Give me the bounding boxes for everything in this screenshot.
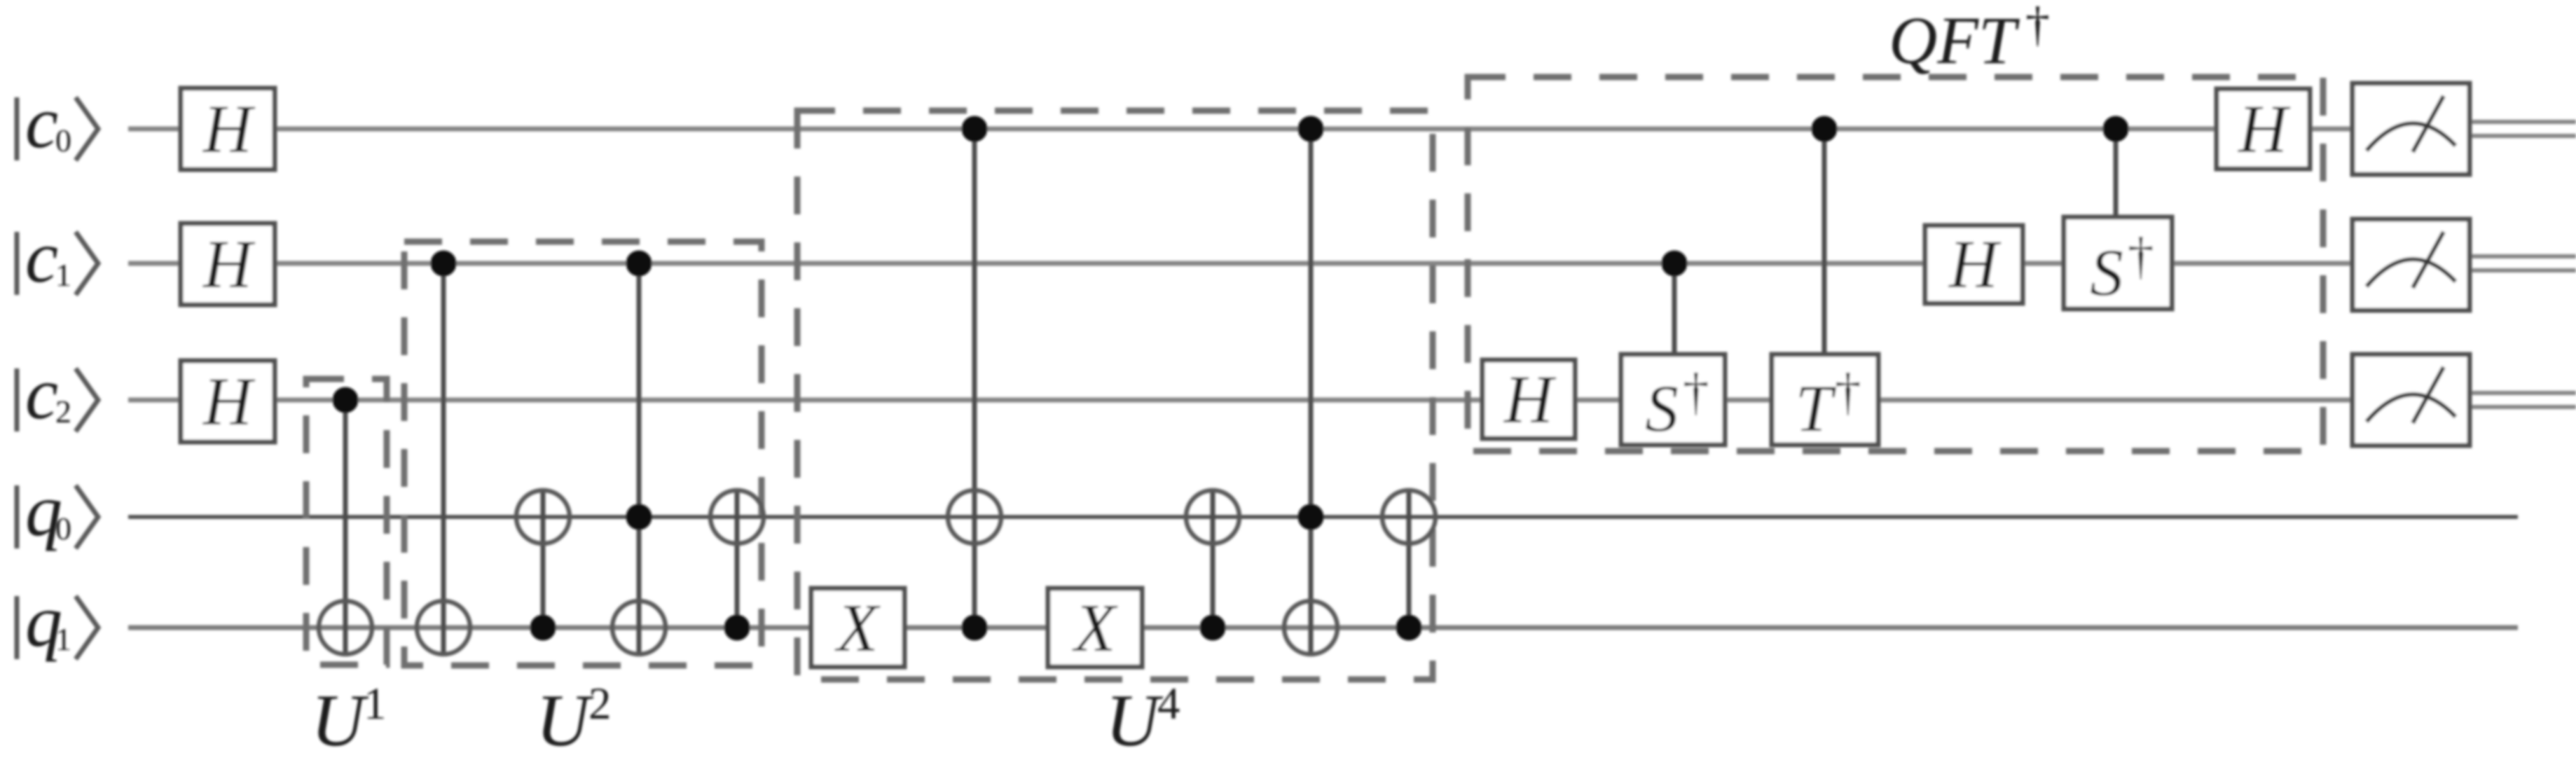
- S-dagger gate on c2: [1621, 354, 1725, 445]
- svg-text:2: 2: [588, 679, 612, 729]
- label U^1: [311, 679, 387, 760]
- svg-text:U: U: [536, 679, 594, 756]
- wire control line c0->Tdg: [1822, 129, 1827, 357]
- svg-text:X: X: [1071, 590, 1118, 665]
- svg-text:U: U: [311, 679, 369, 756]
- wire control line U4a c0->q1: [972, 129, 977, 628]
- ket label |c0>: [17, 81, 98, 163]
- wire q0 qubit line: [128, 515, 2518, 519]
- control dot on c1 (U2 col1): [431, 251, 457, 277]
- control dot on c1 (U2 col3): [626, 251, 652, 277]
- svg-text:†: †: [1683, 363, 1709, 421]
- svg-text:U: U: [1106, 679, 1164, 756]
- dashed box QFT-dagger: [1468, 77, 2323, 451]
- control dot on c2 (U1): [333, 387, 359, 413]
- CNOT target on q0 (U2 col2): [516, 490, 570, 544]
- ket label |q0>: [17, 469, 98, 551]
- CNOT target on q0 (U4 col2): [1186, 490, 1239, 544]
- control dot on q0 (U4 col3): [1298, 504, 1324, 530]
- wire c1 qubit line: [128, 261, 2353, 266]
- svg-text:H: H: [1503, 362, 1557, 437]
- c0 classical double line: [2470, 122, 2576, 136]
- svg-text:S: S: [1645, 371, 1679, 445]
- CNOT target on q0 (U2 col4): [710, 490, 764, 544]
- control dot on c0 (ctrl-Tdg c2): [1812, 116, 1838, 142]
- c2 classical double line: [2470, 393, 2576, 407]
- svg-text:S: S: [2090, 235, 2123, 310]
- svg-text:c: c: [25, 216, 58, 298]
- control dot on c1 (ctrl-Sdg c2): [1662, 251, 1688, 277]
- T-dagger gate on c2: [1772, 354, 1878, 445]
- X gate on q1 (first): [811, 588, 904, 667]
- label U^2: [536, 679, 612, 760]
- wire control line c1->Sdg: [1672, 263, 1677, 357]
- measurement meter on c0: [2353, 83, 2470, 174]
- label U^4: [1106, 679, 1180, 760]
- control dot on q1 (U2 col4): [724, 615, 750, 641]
- CNOT target on q1 (U4 col3): [1284, 601, 1337, 654]
- svg-text:†: †: [1835, 363, 1861, 421]
- svg-text:H: H: [202, 92, 256, 167]
- dashed box U^4: [797, 111, 1433, 679]
- CNOT target on q1 (U1): [319, 601, 372, 654]
- svg-text:T: T: [1796, 371, 1837, 445]
- control dot on c0 (U4 col1): [962, 116, 988, 142]
- wire control line c0->Sdg2: [2114, 129, 2119, 219]
- svg-text:0: 0: [55, 123, 71, 158]
- control dot on q1 (U2 col2): [530, 615, 556, 641]
- CNOT target on q1 (U2 col3): [612, 601, 666, 654]
- wire control line U4b q0->q1: [1211, 490, 1215, 628]
- dashed box U^1: [306, 379, 387, 665]
- control dot on c0 (ctrl-Sdg c1): [2103, 116, 2129, 142]
- svg-text:X: X: [834, 590, 881, 665]
- control dot on q1 (U4 col4): [1396, 615, 1422, 641]
- svg-text:1: 1: [55, 621, 71, 657]
- svg-text:H: H: [2237, 92, 2291, 167]
- wire c2 qubit line: [128, 398, 2353, 403]
- S-dagger gate on c1: [2064, 217, 2172, 310]
- wire c0 qubit line: [128, 127, 2353, 132]
- svg-text:4: 4: [1157, 679, 1180, 729]
- svg-text:†: †: [2025, 0, 2050, 52]
- svg-text:c: c: [25, 81, 58, 163]
- H gate on c2: [181, 361, 275, 442]
- CNOT target on q1 (U2 col1): [417, 601, 470, 654]
- wire control line U4d q0->q1: [1407, 490, 1412, 628]
- svg-text:1: 1: [55, 257, 71, 293]
- control dot on q1 (U4 col2): [1200, 615, 1226, 641]
- H gate on c1: [181, 223, 275, 305]
- CNOT target on q0 (U4 col1): [948, 490, 1001, 544]
- wire control line U2d q0->q1: [735, 490, 740, 628]
- svg-text:1: 1: [364, 679, 387, 729]
- wire control line U1 c2->q1: [343, 400, 348, 654]
- svg-text:†: †: [2128, 227, 2154, 285]
- H gate on c0: [181, 88, 275, 170]
- H gate on c2 (QFT): [1482, 360, 1575, 438]
- svg-text:H: H: [202, 364, 256, 439]
- wire control line U2b q0->q1: [541, 490, 546, 628]
- wire control line U2a c1->q1: [441, 263, 446, 654]
- wire control line U4c c0->q1: [1309, 129, 1314, 654]
- dashed box U^2: [404, 242, 762, 665]
- ket label |q1>: [17, 580, 98, 662]
- ket label |c1>: [17, 216, 98, 298]
- measurement meter on c1: [2353, 219, 2470, 310]
- svg-text:QFT: QFT: [1889, 3, 2020, 78]
- control dot on q0 (U2 col3): [626, 504, 652, 530]
- svg-text:2: 2: [55, 394, 71, 429]
- ket label |c2>: [17, 352, 98, 434]
- H gate on c0 (QFT): [2217, 89, 2310, 169]
- measurement meter on c2: [2353, 354, 2470, 445]
- label QFT-dagger: [1889, 0, 2050, 78]
- H gate on c1 (QFT): [1925, 226, 2023, 303]
- CNOT target on q0 (U4 col4): [1382, 490, 1435, 544]
- svg-text:c: c: [25, 352, 58, 434]
- c1 classical double line: [2470, 256, 2576, 270]
- svg-text:H: H: [202, 227, 256, 302]
- control dot on c0 (U4 col3): [1298, 116, 1324, 142]
- svg-text:0: 0: [55, 511, 71, 546]
- wire q1 qubit line: [128, 626, 2518, 630]
- wire control line U2c c1->q1: [637, 263, 642, 654]
- control dot on q1 (U4 col1): [962, 615, 988, 641]
- svg-text:H: H: [1948, 227, 2002, 302]
- X gate on q1 (second): [1048, 588, 1142, 667]
